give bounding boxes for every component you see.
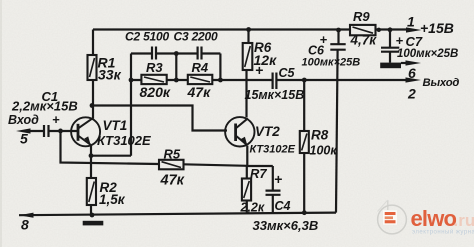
- svg-text:R3: R3: [146, 60, 163, 75]
- svg-text:+: +: [255, 62, 263, 78]
- svg-text:+: +: [320, 32, 328, 47]
- svg-text:4,7к: 4,7к: [350, 33, 378, 48]
- svg-text:VT1: VT1: [103, 118, 128, 133]
- svg-text:820к: 820к: [140, 84, 171, 100]
- svg-text:C4: C4: [275, 199, 291, 213]
- svg-text:R9: R9: [353, 9, 370, 24]
- svg-text:R8: R8: [311, 128, 329, 143]
- svg-text:C7: C7: [406, 34, 423, 49]
- svg-text:+: +: [396, 33, 404, 48]
- svg-text:2,2мк×15В: 2,2мк×15В: [11, 99, 78, 114]
- svg-text:+15В: +15В: [420, 20, 454, 36]
- svg-text:15мк×15В: 15мк×15В: [245, 88, 305, 102]
- svg-text:+: +: [274, 171, 282, 187]
- svg-text:R7: R7: [250, 166, 267, 181]
- svg-text:.ru: .ru: [454, 211, 474, 230]
- svg-text:VT2: VT2: [255, 124, 280, 139]
- svg-text:2,2к: 2,2к: [240, 201, 265, 215]
- svg-text:6: 6: [408, 65, 416, 81]
- svg-text:elwo: elwo: [411, 206, 457, 231]
- svg-text:100мк×25В: 100мк×25В: [302, 57, 361, 69]
- svg-text:C5: C5: [279, 66, 296, 80]
- svg-text:КТ3102Е: КТ3102Е: [97, 133, 151, 148]
- svg-text:Вход: Вход: [8, 113, 39, 127]
- svg-text:33мк×6,3В: 33мк×6,3В: [253, 218, 319, 233]
- svg-text:1,5к: 1,5к: [99, 192, 126, 207]
- svg-text:Выход: Выход: [423, 77, 460, 89]
- svg-text:1: 1: [407, 14, 415, 30]
- svg-text:R5: R5: [164, 147, 181, 162]
- svg-text:C2 5100: C2 5100: [125, 30, 169, 44]
- svg-text:+: +: [52, 112, 60, 127]
- svg-text:электронный журнал: электронный журнал: [412, 228, 474, 235]
- svg-text:C3 2200: C3 2200: [174, 30, 218, 44]
- svg-text:R4: R4: [192, 60, 209, 75]
- svg-text:47к: 47к: [187, 84, 212, 100]
- svg-text:33к: 33к: [98, 67, 122, 83]
- svg-text:8: 8: [21, 217, 29, 233]
- svg-text:100к: 100к: [310, 144, 338, 158]
- svg-text:2: 2: [407, 86, 416, 102]
- svg-text:КТ3102Е: КТ3102Е: [250, 144, 296, 156]
- svg-text:100мк×25В: 100мк×25В: [397, 48, 458, 60]
- svg-text:5: 5: [20, 131, 28, 147]
- svg-text:47к: 47к: [160, 173, 185, 189]
